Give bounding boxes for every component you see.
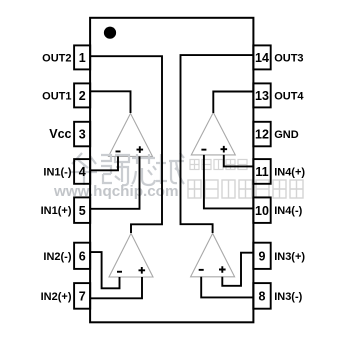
- watermark char 强: [101, 155, 129, 185]
- svg-text:GND: GND: [274, 129, 299, 141]
- watermark right line2 元器件在线商城: [188, 180, 303, 198]
- pin 3 box: [74, 122, 90, 147]
- op-amp U3 (IN3/OUT3, bottom-right) triangle: [191, 233, 235, 276]
- wire IN4(-): pin10 to U4 inverting input: [204, 155, 254, 209]
- wire IN3(-): pin8 to U3 inverting input: [201, 277, 253, 298]
- svg-text:5: 5: [79, 204, 86, 218]
- wire IN2(-): pin6 to U2 inverting input: [90, 252, 120, 288]
- svg-text:IN4(-): IN4(-): [274, 205, 302, 217]
- pin 8 box: [253, 283, 270, 309]
- pin 7 box: [74, 283, 90, 309]
- IC body outline: [90, 18, 253, 323]
- svg-text:IN1(-): IN1(-): [43, 166, 71, 178]
- pin 6 box: [74, 243, 90, 269]
- svg-text:IN3(-): IN3(-): [274, 291, 302, 303]
- svg-text:2: 2: [79, 89, 86, 103]
- pin 4 box: [74, 159, 90, 184]
- op-amp U4 minus mark: [201, 149, 206, 151]
- svg-text:12: 12: [255, 128, 269, 142]
- wire IN2(+): pin7 to U2 non-inverting input: [90, 277, 142, 298]
- op-amp U4 (IN4/OUT4, top-right) triangle: [191, 112, 235, 154]
- pin 1 indicator dot: [104, 27, 116, 39]
- pin 12 box: [253, 122, 270, 147]
- pin 1 box: [74, 45, 90, 69]
- wire OUT1: pin2 to U1 output: [90, 91, 131, 113]
- svg-text:OUT3: OUT3: [274, 52, 303, 64]
- op-amp U4 plus mark: [221, 146, 228, 153]
- op-amp U2 minus mark: [117, 271, 122, 273]
- pin 11 box: [253, 159, 270, 184]
- op-amp U2 plus mark: [139, 267, 146, 274]
- svg-text:14: 14: [255, 51, 269, 65]
- wire OUT3: pin14 to U3 output: [181, 55, 254, 233]
- wire OUT4: pin13 to U4 output: [213, 92, 253, 114]
- svg-text:6: 6: [79, 249, 86, 263]
- svg-text:IN3(+): IN3(+): [274, 251, 305, 263]
- pin 5 box: [74, 197, 90, 223]
- svg-text:1: 1: [79, 51, 86, 65]
- wire IN1(+): pin5 to U1 non-inverting input: [90, 156, 140, 208]
- svg-text:IN2(-): IN2(-): [43, 251, 71, 263]
- svg-text:OUT1: OUT1: [42, 90, 71, 102]
- watermark char 芯: [132, 154, 156, 185]
- wire IN4(+): pin11 to U4 non-inverting input: [224, 155, 254, 167]
- watermark right line1 华强集团旗下: [190, 160, 247, 170]
- svg-text:8: 8: [259, 290, 266, 304]
- op-amp U3 minus mark: [199, 269, 204, 271]
- watermark char 华: [71, 153, 97, 185]
- svg-text:7: 7: [79, 290, 86, 304]
- pin 2 box: [74, 83, 90, 107]
- svg-text:IN2(+): IN2(+): [41, 291, 72, 303]
- svg-text:OUT4: OUT4: [274, 90, 304, 102]
- svg-text:OUT2: OUT2: [42, 52, 71, 64]
- wire IN1(-): pin4 to U1 inverting input: [90, 156, 118, 170]
- svg-text:11: 11: [255, 165, 268, 179]
- pin 14 box: [253, 45, 270, 69]
- svg-text:3: 3: [79, 128, 86, 142]
- svg-text:9: 9: [259, 249, 266, 263]
- watermark char 城: [156, 153, 184, 184]
- wire IN3(+): pin9 to U3 non-inverting input: [222, 253, 253, 286]
- svg-text:IN4(+): IN4(+): [274, 166, 305, 178]
- pin 10 box: [253, 197, 270, 223]
- svg-text:13: 13: [255, 89, 269, 103]
- pin 9 box: [253, 243, 270, 269]
- op-amp U2 (IN2/OUT2, bottom-left) triangle: [109, 233, 153, 277]
- wire OUT2: pin1 to U2 output: [90, 56, 162, 233]
- op-amp U3 plus mark: [219, 266, 226, 273]
- svg-text:IN1(+): IN1(+): [41, 205, 72, 217]
- pin 13 box: [253, 83, 270, 107]
- svg-text:www.hqchip.com: www.hqchip.com: [53, 184, 179, 200]
- op-amp U1 minus mark: [116, 151, 121, 153]
- svg-text:Vcc: Vcc: [49, 127, 71, 141]
- op-amp U1 plus mark: [137, 146, 144, 153]
- svg-text:10: 10: [255, 204, 269, 218]
- svg-text:4: 4: [79, 165, 86, 179]
- op-amp U1 (IN1/OUT1, top-left) triangle: [109, 113, 153, 156]
